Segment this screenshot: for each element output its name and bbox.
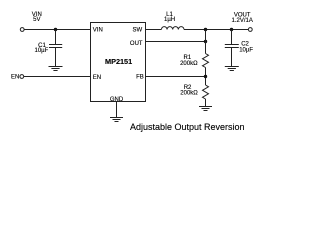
svg-text:VIN: VIN [93,27,103,33]
svg-text:SW: SW [133,27,143,33]
node VOUT label [232,12,253,24]
wire SW to L1 [146,29,162,31]
ground C1 [49,67,63,71]
capacitor C2 [225,45,239,48]
VOUT output terminal [248,28,252,32]
R2 value label [180,85,198,97]
svg-text:1µH: 1µH [164,17,175,23]
svg-text:MP2151: MP2151 [105,57,132,66]
C2 value label [239,41,253,53]
wire EN input to IC [24,76,91,78]
svg-text:200kΩ: 200kΩ [180,91,198,97]
VIN input terminal [20,28,24,32]
node junction FB [204,75,207,78]
R1 value label [180,55,198,67]
inductor L1 [161,27,184,30]
wire FB pin to divider [146,76,206,78]
svg-text:10µF: 10µF [35,48,49,54]
svg-text:200kΩ: 200kΩ [180,61,198,67]
wire R1 top [205,30,207,54]
svg-text:10µF: 10µF [239,48,253,54]
op-amp U1 MP2151 IC body [91,23,146,102]
ground R2 [199,107,212,111]
svg-text:C2: C2 [241,41,249,47]
capacitor C1 [49,45,62,48]
node junction VIN/C1 [54,28,57,31]
EN input terminal [20,75,24,79]
svg-text:OUT: OUT [130,41,143,47]
node junction C2 top [230,28,233,31]
wire R1 bottom to FB node [205,68,207,86]
wire C1 top [55,30,57,45]
wire L1 to VOUT terminal [184,29,248,31]
svg-text:EN: EN [11,75,19,81]
wire C2 bottom [231,48,233,67]
node junction OUT/R1 [204,40,207,43]
svg-text:EN: EN [93,75,101,81]
C1 value label [35,43,49,54]
wire GND pin [116,102,118,118]
ground C2 [225,67,239,71]
svg-text:Adjustable Output Reversion: Adjustable Output Reversion [130,122,245,132]
wire OUT pin to R1 [146,41,206,43]
wire R2 bottom [205,99,207,107]
L1 value label [164,12,175,23]
node VIN label [32,12,42,23]
wire C2 top [231,30,233,45]
svg-text:FB: FB [136,75,144,81]
svg-text:5V: 5V [33,17,40,23]
node junction R1 top [204,28,207,31]
svg-text:1.2V/1A: 1.2V/1A [232,18,253,24]
wire VIN input to IC [24,29,91,31]
resistor R2 [203,85,209,99]
wire C1 bottom [55,48,57,67]
ground GND pin [110,118,123,122]
resistor R1 [203,54,209,68]
